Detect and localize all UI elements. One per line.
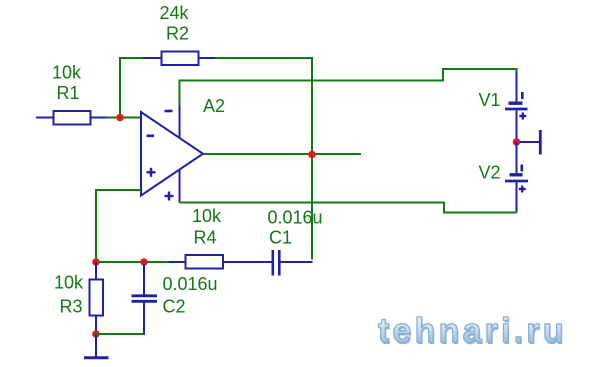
node junction at C2 top xyxy=(140,258,148,266)
node junction at R3 bottom xyxy=(92,330,100,338)
resistor R1 xyxy=(36,111,107,125)
node junction at R3 top xyxy=(92,258,100,266)
resistor R4 xyxy=(169,255,272,269)
battery V2 xyxy=(505,142,528,213)
svg-text:R2: R2 xyxy=(166,24,189,44)
resistor R2 xyxy=(143,52,215,66)
op-amp supply plus label outside bottom xyxy=(165,192,174,201)
node junction between V1 and V2 xyxy=(513,138,521,146)
svg-text:R4: R4 xyxy=(194,228,217,248)
op-amp inverting input minus sign inside xyxy=(147,135,155,138)
svg-text:10k: 10k xyxy=(192,206,222,226)
wire R1 to inverting input xyxy=(107,117,141,119)
wire top supply to V1 xyxy=(180,69,517,105)
capacitor C2 xyxy=(132,264,158,334)
op-amp negative supply pin stub xyxy=(179,169,181,203)
wire V2 bottom to op-amp negative supply xyxy=(180,203,517,213)
svg-text:0.016u: 0.016u xyxy=(163,274,218,294)
svg-text:V2: V2 xyxy=(479,163,501,183)
ground bottom xyxy=(84,334,109,358)
svg-text:A2: A2 xyxy=(203,96,225,116)
svg-text:R3: R3 xyxy=(60,297,83,317)
svg-text:C1: C1 xyxy=(269,228,292,248)
wire junction up to R2 left xyxy=(120,58,143,118)
op-amp U A2 triangle xyxy=(141,112,203,196)
svg-text:V1: V1 xyxy=(479,90,501,110)
svg-text:R1: R1 xyxy=(57,83,80,103)
op-amp positive supply pin stub xyxy=(179,105,181,139)
wire R2 right to vertical feedback net xyxy=(215,58,312,260)
node junction output and feedback net xyxy=(308,151,316,159)
wire R3 bottom to C2 bottom xyxy=(96,333,145,335)
node junction at R1 / R2 / op-amp input xyxy=(116,114,124,122)
svg-text:C2: C2 xyxy=(163,297,186,317)
svg-text:0.016u: 0.016u xyxy=(268,208,323,228)
watermark tehnari.ru xyxy=(378,312,578,348)
svg-text:10k: 10k xyxy=(52,63,82,83)
battery V1 xyxy=(505,71,528,139)
wire op-amp output xyxy=(204,153,362,155)
resistor R3 xyxy=(90,262,104,334)
wire non-inverting input down to R3 node xyxy=(96,190,141,262)
ground reference right rotated xyxy=(517,130,541,155)
svg-text:10k: 10k xyxy=(54,273,84,293)
op-amp non-inverting plus sign inside xyxy=(147,168,156,177)
op-amp supply minus label outside top xyxy=(165,110,173,113)
svg-text:24k: 24k xyxy=(160,3,190,23)
wire R3 node to C2 node to R4 xyxy=(96,261,169,263)
capacitor C1 xyxy=(273,250,313,276)
